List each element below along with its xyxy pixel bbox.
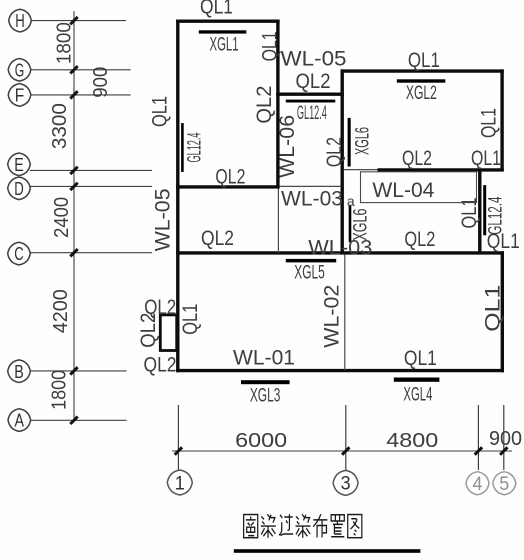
- svg-text:QL2: QL2: [201, 226, 234, 250]
- svg-text:3300: 3300: [49, 103, 71, 149]
- svg-text:QL2: QL2: [144, 353, 177, 377]
- wall bottom of room 1: [176, 185, 280, 188]
- svg-text:B: B: [14, 361, 24, 382]
- grid circle G: [8, 59, 31, 82]
- thin opening line at WL-04: [344, 169, 378, 171]
- tick at A: [70, 417, 77, 424]
- svg-text:QL1: QL1: [481, 285, 505, 332]
- grid circle A: [8, 409, 31, 432]
- tick at 5: [500, 447, 507, 454]
- wall left exterior: [176, 20, 179, 373]
- svg-text:XGL6: XGL6: [353, 127, 374, 155]
- grid circle D: [8, 177, 31, 200]
- svg-text:GL12.4: GL12.4: [185, 132, 206, 162]
- tick at 4: [475, 447, 482, 454]
- svg-text:4: 4: [473, 474, 483, 495]
- svg-text:WL-05: WL-05: [151, 188, 175, 251]
- grid line G: [31, 69, 131, 71]
- lintel bar GL12.4 middle: [286, 100, 336, 103]
- svg-text:QL1: QL1: [476, 108, 500, 138]
- lintel bar XGL6 lower: [349, 205, 352, 242]
- svg-text:5: 5: [499, 474, 509, 495]
- wall left of room 2: [341, 69, 344, 254]
- wall right of room 2: [500, 69, 503, 171]
- thin line between WL-01 and WL-02: [344, 255, 346, 371]
- svg-text:QL2: QL2: [252, 86, 276, 124]
- wall top of room 2: [341, 69, 504, 72]
- bottom dimension line: [172, 450, 512, 452]
- grid circle E: [8, 153, 31, 176]
- svg-text:A: A: [15, 410, 25, 431]
- tick at E: [70, 167, 77, 174]
- svg-text:QL2: QL2: [402, 146, 432, 170]
- title 圈梁过梁布置图: [244, 515, 258, 538]
- wall top of room 1: [176, 20, 280, 23]
- svg-text:QL1: QL1: [404, 346, 437, 370]
- tick at D: [70, 183, 77, 190]
- thin opening line WL-03a room: [280, 185, 342, 187]
- grid circle B: [8, 360, 31, 383]
- wall bottom of room 2: [378, 168, 504, 171]
- lintel bar XGL4: [394, 378, 440, 382]
- svg-text:WL-03: WL-03: [281, 187, 343, 211]
- tick at 1: [175, 447, 182, 454]
- lintel bar XGL6 upper: [348, 118, 351, 167]
- svg-text:4200: 4200: [50, 289, 72, 333]
- grid circle F: [8, 84, 31, 107]
- wall top of middle strip: [276, 92, 344, 95]
- svg-text:QL2: QL2: [322, 137, 346, 167]
- svg-text:QL1: QL1: [178, 304, 202, 335]
- svg-text:WL-01: WL-01: [233, 346, 295, 370]
- svg-text:WL-04: WL-04: [372, 178, 434, 202]
- svg-text:QL1: QL1: [408, 48, 440, 72]
- svg-text:XGL3: XGL3: [250, 385, 281, 406]
- svg-text:1800: 1800: [49, 370, 71, 410]
- tick at 3: [342, 447, 349, 454]
- svg-text:XGL4: XGL4: [403, 384, 432, 405]
- tick at F: [70, 91, 77, 98]
- wall bottom exterior: [176, 369, 504, 372]
- svg-text:QL2: QL2: [136, 313, 160, 348]
- lintel bar GL12.4 right: [483, 185, 486, 235]
- svg-text:E: E: [14, 154, 24, 175]
- grid circle H: [9, 9, 32, 32]
- wall right notch: [478, 168, 481, 254]
- grid line D: [30, 185, 152, 187]
- svg-text:a: a: [347, 193, 355, 209]
- grid circle C: [8, 242, 31, 265]
- leader line 4: [477, 405, 479, 470]
- tick at C: [70, 249, 77, 256]
- svg-text:1: 1: [175, 473, 185, 494]
- grid line F: [31, 94, 131, 96]
- title underline: [234, 549, 421, 553]
- svg-text:900: 900: [489, 428, 522, 450]
- svg-text:G: G: [15, 59, 25, 80]
- svg-text:QL2: QL2: [296, 69, 331, 93]
- tick at G: [70, 66, 77, 73]
- svg-text:900: 900: [90, 67, 112, 98]
- svg-text:1800: 1800: [53, 22, 75, 64]
- svg-text:QL1: QL1: [148, 96, 172, 127]
- svg-text:QL1: QL1: [471, 146, 501, 170]
- svg-text:QL2: QL2: [404, 227, 435, 251]
- grid line B: [30, 370, 127, 372]
- lintel bar XGL5: [286, 259, 336, 263]
- grid line H: [31, 20, 126, 22]
- lintel bar XGL1: [199, 30, 247, 33]
- svg-text:F: F: [15, 85, 25, 106]
- pier at left wall: [160, 315, 176, 351]
- thin line below room1 right wall: [277, 189, 279, 253]
- svg-text:4800: 4800: [386, 430, 438, 452]
- svg-text:3: 3: [341, 474, 351, 495]
- tick at B: [70, 367, 77, 374]
- svg-text:GL12.4: GL12.4: [486, 196, 507, 234]
- left dimension line: [73, 11, 75, 421]
- svg-text:XGL6: XGL6: [351, 209, 372, 241]
- svg-text:XGL5: XGL5: [294, 262, 325, 283]
- grid line A: [30, 419, 127, 421]
- leader line 5: [503, 405, 505, 470]
- svg-text:QL1: QL1: [457, 198, 481, 229]
- lintel bar XGL2: [397, 79, 446, 82]
- grid line E: [30, 169, 152, 171]
- wall right of room 4: [501, 251, 504, 372]
- wall right of room 1: [276, 20, 279, 189]
- svg-text:XGL2: XGL2: [406, 83, 437, 104]
- grid circle 1: [167, 470, 192, 495]
- svg-text:H: H: [15, 10, 25, 31]
- svg-text:WL-05: WL-05: [281, 47, 347, 71]
- wall at grid C: [176, 251, 504, 254]
- svg-text:QL1: QL1: [200, 0, 233, 19]
- svg-text:2400: 2400: [51, 197, 73, 238]
- svg-text:QL2: QL2: [215, 164, 245, 188]
- svg-text:WL-02: WL-02: [319, 285, 343, 348]
- leader line 1: [177, 405, 179, 470]
- grid circle 5: [493, 472, 516, 495]
- lintel bar GL12.4 room1: [181, 123, 184, 172]
- svg-text:C: C: [14, 243, 24, 264]
- svg-text:D: D: [14, 178, 24, 199]
- tick at H: [70, 17, 77, 24]
- grid circle 4: [466, 472, 489, 495]
- svg-text:QL1: QL1: [257, 31, 281, 61]
- svg-text:WL-06: WL-06: [275, 115, 299, 178]
- svg-text:XGL1: XGL1: [210, 35, 239, 56]
- WL-04 label box: [361, 172, 477, 203]
- leader line 3: [345, 405, 347, 470]
- svg-text:GL12.4: GL12.4: [297, 103, 327, 124]
- grid line C: [30, 252, 152, 254]
- grid circle 3: [333, 470, 358, 495]
- lintel bar XGL3: [241, 380, 290, 384]
- svg-text:6000: 6000: [235, 430, 287, 452]
